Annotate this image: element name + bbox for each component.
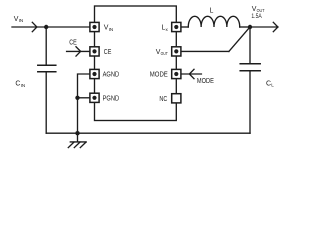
svg-text:OUT: OUT bbox=[161, 51, 168, 56]
wire PGND to junction bbox=[78, 97, 90, 99]
wire VOUT output arrow bbox=[250, 26, 278, 28]
wire inductor to output node bbox=[240, 26, 250, 28]
inductor L bbox=[188, 16, 239, 27]
capacitor CL bbox=[240, 64, 260, 71]
ground bbox=[68, 133, 86, 147]
svg-text:AGND: AGND bbox=[103, 72, 120, 79]
label pin Lx bbox=[162, 25, 169, 32]
svg-text:IN: IN bbox=[21, 83, 26, 88]
label pin CE bbox=[104, 49, 112, 56]
label pin VOUT bbox=[156, 49, 168, 56]
wire VOUT pin diagonal to output node bbox=[229, 27, 250, 51]
label CE input bbox=[69, 39, 77, 46]
IC U1 DC/DC converter body outline bbox=[95, 6, 177, 121]
label pin MODE bbox=[150, 71, 168, 78]
label pin VIN bbox=[104, 25, 113, 32]
svg-text:NC: NC bbox=[159, 96, 167, 103]
wire ground bus bbox=[46, 132, 250, 134]
wire CIN to ground bus bbox=[45, 72, 47, 133]
pin MODE box bbox=[172, 69, 181, 78]
VOUT output arrowhead bbox=[273, 22, 278, 31]
node AGND-PGND junction bbox=[75, 96, 79, 100]
wire Lx to inductor bbox=[182, 26, 189, 28]
svg-text:IN: IN bbox=[109, 27, 114, 32]
pin AGND box bbox=[90, 69, 99, 78]
svg-text:L: L bbox=[271, 83, 274, 88]
CE input arrowhead bbox=[76, 47, 81, 56]
label L value bbox=[210, 7, 214, 14]
label CL value bbox=[266, 80, 274, 87]
wire junction to ground bus bbox=[77, 98, 79, 133]
pin PGND box bbox=[90, 93, 99, 102]
wire VOUT pin horizontal bbox=[182, 50, 229, 52]
node ground bus junction bbox=[75, 131, 79, 135]
svg-text:L: L bbox=[210, 7, 214, 14]
wire CE input stub bbox=[67, 50, 90, 52]
pin NC box bbox=[172, 94, 181, 103]
wire VIN to CIN bbox=[45, 27, 47, 65]
pin VOUT box bbox=[172, 47, 181, 56]
svg-text:CE: CE bbox=[104, 49, 112, 56]
svg-text:PGND: PGND bbox=[103, 95, 120, 102]
capacitor CIN bbox=[38, 65, 56, 72]
label CIN value bbox=[15, 81, 25, 88]
svg-text:1.5A: 1.5A bbox=[251, 13, 262, 20]
pin Lx box bbox=[172, 22, 181, 31]
svg-text:CE: CE bbox=[69, 39, 77, 46]
node VOUT output junction bbox=[248, 25, 252, 29]
wire VIN input horizontal bbox=[12, 26, 89, 28]
label 1.5A output current bbox=[251, 13, 262, 20]
label pin PGND bbox=[103, 95, 120, 102]
wire output node to CL bbox=[249, 27, 251, 64]
wire MODE input stub bbox=[182, 73, 202, 75]
pin VIN box bbox=[90, 22, 99, 31]
svg-text:IN: IN bbox=[19, 18, 24, 23]
MODE input arrowhead bbox=[189, 69, 194, 78]
label VIN input bbox=[14, 16, 23, 23]
label VOUT output bbox=[252, 6, 265, 13]
svg-text:x: x bbox=[166, 27, 169, 32]
label pin NC bbox=[159, 96, 167, 103]
wire CL to ground bus bbox=[249, 71, 251, 133]
pin CE box bbox=[90, 47, 99, 56]
node VIN junction bbox=[44, 25, 48, 29]
label pin AGND bbox=[103, 72, 120, 79]
label MODE input bbox=[197, 78, 214, 85]
svg-text:MODE: MODE bbox=[197, 78, 214, 85]
svg-text:MODE: MODE bbox=[150, 71, 168, 78]
wire AGND to junction bbox=[78, 74, 90, 98]
VIN input arrowhead bbox=[32, 22, 37, 31]
